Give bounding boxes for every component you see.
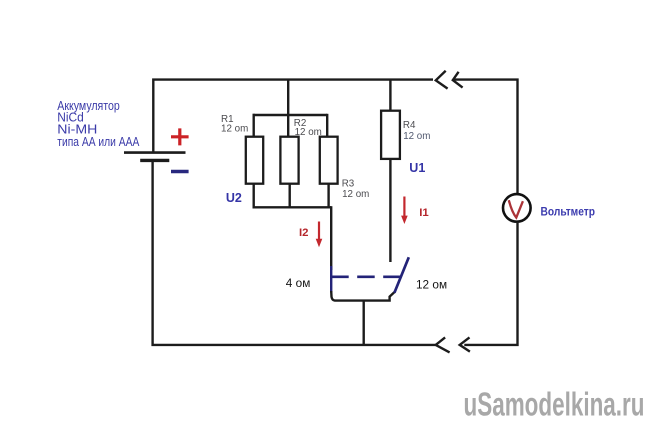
- wire: switch common down to bottom run: [363, 301, 365, 345]
- voltmeter V glyph: [509, 200, 523, 217]
- resistor R1: [246, 137, 263, 184]
- current arrow I1: [403, 197, 405, 217]
- current arrow I2: [318, 222, 320, 241]
- resistor R3: [320, 137, 338, 184]
- wire: R2 top stem: [287, 115, 289, 137]
- wire: parallel bank bottom bus: [254, 206, 332, 208]
- svg-text:12 om: 12 om: [221, 124, 248, 135]
- wire: R1 bottom stem: [252, 184, 254, 209]
- voltmeter circle: [503, 194, 531, 222]
- battery minus sign: [171, 170, 189, 173]
- svg-text:Вольтметр: Вольтметр: [541, 204, 596, 218]
- svg-text:U1: U1: [409, 161, 425, 175]
- top-right current chevron 1: [436, 71, 448, 89]
- switch pole blue segment: [330, 266, 332, 293]
- switch lever to 12 om contact: [394, 257, 408, 293]
- wire: voltmeter down to bottom-right corner: [464, 222, 517, 345]
- resistor R2: [280, 137, 298, 184]
- svg-text:R4: R4: [403, 120, 416, 131]
- svg-text:12 ом: 12 ом: [416, 277, 447, 291]
- wire: bus down to switch pole: [330, 206, 332, 270]
- wire: R3 bottom stem: [327, 184, 329, 209]
- top-right current chevron 2: [453, 72, 463, 88]
- wire: R4 down to switch contact: [389, 159, 391, 262]
- svg-text:12 om: 12 om: [295, 127, 322, 138]
- wire: R4 top stem: [389, 80, 391, 111]
- bottom-right current chevron 2: [436, 337, 450, 352]
- svg-text:I1: I1: [419, 207, 429, 219]
- switch throw position dashed: [331, 275, 401, 278]
- svg-text:uSamodelkina.ru: uSamodelkina.ru: [464, 385, 645, 422]
- resistor R4: [381, 111, 400, 159]
- bottom-right current chevron 1: [460, 337, 470, 351]
- wire: bottom run back to battery: [153, 161, 436, 345]
- wire: parallel bank top bus: [253, 114, 328, 116]
- wire top-left: battery positive riser and top horizontal run: [153, 80, 433, 152]
- wire: R1 top stem: [252, 114, 254, 137]
- wire: top-right corner down to voltmeter: [455, 80, 518, 194]
- battery plus sign: [171, 128, 189, 145]
- switch body cup: [331, 291, 395, 301]
- battery positive plate: [124, 151, 186, 154]
- svg-text:типа АА или ААА: типа АА или ААА: [57, 134, 139, 149]
- svg-text:12 om: 12 om: [403, 131, 430, 142]
- svg-text:I2: I2: [299, 227, 309, 239]
- wire: feed from top run to parallel bank: [287, 80, 289, 115]
- wire: R3 top stem: [326, 114, 328, 137]
- svg-text:4 ом: 4 ом: [286, 276, 311, 290]
- svg-text:U2: U2: [226, 191, 242, 205]
- svg-text:12 om: 12 om: [342, 189, 369, 200]
- battery negative plate: [140, 159, 169, 162]
- wire: R2 bottom stem: [289, 184, 291, 209]
